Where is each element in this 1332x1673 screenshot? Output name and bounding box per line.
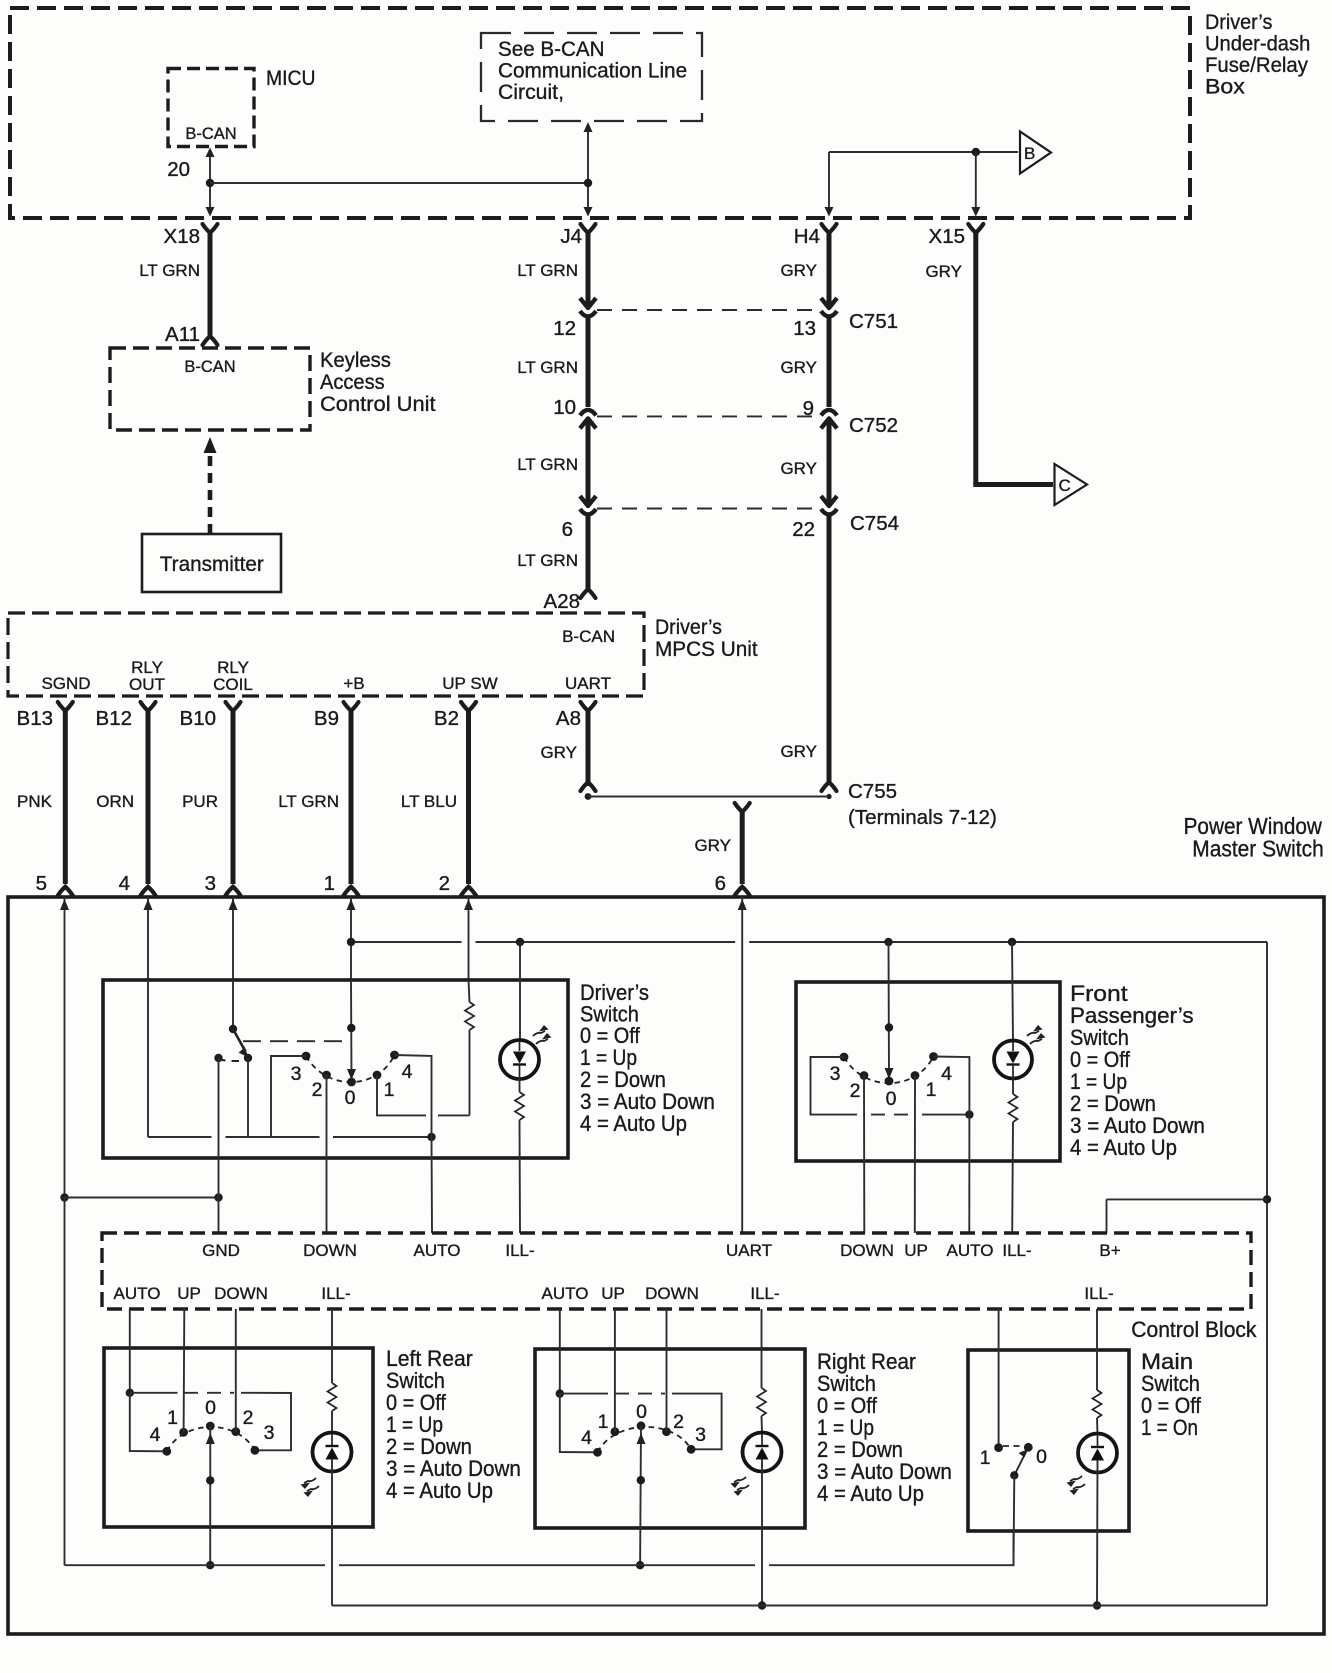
svg-text:3: 3	[264, 1422, 275, 1444]
wire ILL bottom rail	[332, 1605, 1267, 1607]
svg-text:1: 1	[384, 1079, 395, 1101]
svg-text:UART: UART	[726, 1241, 772, 1260]
label 4 LR	[150, 1424, 161, 1446]
svg-text:Keyless: Keyless	[320, 348, 391, 372]
svg-text:Under-dash: Under-dash	[1205, 32, 1310, 56]
contact 2 front	[860, 1071, 869, 1080]
svg-text:Circuit,: Circuit,	[498, 80, 564, 104]
wire C754 dashed line	[597, 508, 818, 510]
wire driver ILL- LED line	[519, 942, 521, 1040]
node relay contact left	[214, 1054, 222, 1062]
connector A28 fork	[581, 589, 596, 598]
pin B10	[180, 707, 216, 730]
svg-text:0 = Off: 0 = Off	[1070, 1048, 1130, 1072]
svg-text:6: 6	[715, 872, 726, 895]
pin 2 label	[439, 872, 450, 895]
wire pin4 entry with arrow	[144, 897, 153, 980]
label +B	[343, 674, 364, 693]
svg-text:GRY: GRY	[780, 742, 817, 761]
pin 22 label	[792, 518, 815, 541]
svg-text:LT BLU: LT BLU	[401, 792, 457, 811]
svg-text:LT GRN: LT GRN	[139, 261, 200, 280]
wire J4 segment 1 (LT GRN)	[586, 231, 591, 305]
svg-text:AUTO: AUTO	[114, 1284, 161, 1303]
wire contact 2 to DOWN	[326, 1075, 328, 1233]
connector pin2 fork	[461, 887, 476, 896]
label 1 RR	[598, 1411, 609, 1433]
label Main Switch legend	[1141, 1349, 1201, 1440]
svg-text:5: 5	[36, 872, 47, 895]
node X15 junction	[972, 148, 980, 156]
contact 1 front	[911, 1071, 920, 1080]
svg-text:1 = Up: 1 = Up	[386, 1413, 443, 1438]
node A8 C755 junction	[585, 793, 592, 800]
svg-text:PNK: PNK	[17, 792, 53, 811]
label 2 RR	[673, 1411, 684, 1433]
Driver's MPCS Unit box	[8, 613, 644, 696]
connector B13 fork	[58, 702, 73, 711]
label AUTO (left rear)	[114, 1284, 161, 1303]
node right rear GND rail	[636, 1561, 644, 1569]
connector C754 at H4 pin 22	[821, 496, 837, 515]
svg-text:PUR: PUR	[182, 792, 218, 811]
svg-text:GRY: GRY	[694, 836, 731, 855]
wire front contact 2 to DOWN	[863, 1076, 865, 1234]
svg-text:2: 2	[243, 1407, 254, 1429]
wire H4 segment 4 (GRY)	[827, 515, 832, 784]
relay armature	[233, 1029, 249, 1058]
label 2 LR	[243, 1407, 254, 1429]
svg-text:Switch: Switch	[580, 1003, 639, 1027]
svg-text:COIL: COIL	[213, 675, 253, 694]
svg-text:0 = Off: 0 = Off	[580, 1024, 640, 1048]
relay link dashed	[243, 1040, 351, 1042]
node main arm pivot	[1010, 1471, 1018, 1479]
node front AUTO junction	[965, 1110, 973, 1118]
connector J4 fork	[581, 224, 596, 233]
svg-text:1 = On: 1 = On	[1141, 1416, 1198, 1441]
wire right rear DOWN entry	[666, 1309, 668, 1432]
LED front illumination	[994, 1041, 1032, 1079]
contact 2 LR	[231, 1427, 240, 1436]
wire B9 (LT GRN)	[349, 710, 354, 884]
wire B12 (ORN)	[146, 710, 151, 884]
pin 3 label	[205, 872, 216, 895]
wire pin3 entry with arrow	[229, 897, 238, 980]
wire H4 branch	[825, 152, 1019, 217]
svg-text:0: 0	[1036, 1446, 1047, 1468]
rotary arc right rear	[598, 1427, 692, 1452]
node left rear common	[206, 1476, 214, 1484]
svg-text:LT GRN: LT GRN	[278, 792, 339, 811]
wire right rear contact 4 bracket	[560, 1394, 598, 1453]
driver's switch box	[103, 980, 568, 1158]
svg-text:4: 4	[119, 872, 130, 895]
wire pin2 entry with arrow	[464, 897, 473, 980]
contact 0 main	[1024, 1443, 1033, 1452]
connector H4 fork	[822, 224, 837, 233]
main contact dashed	[1003, 1445, 1024, 1447]
arrow to front common 0	[885, 1068, 894, 1079]
resistor front LED	[1009, 1077, 1018, 1233]
svg-text:X18: X18	[164, 225, 200, 248]
node left rear GND rail	[206, 1561, 214, 1569]
wire front contact 3 bracket	[811, 1057, 858, 1115]
label DOWN (left rear)	[214, 1284, 268, 1303]
svg-text:Right Rear: Right Rear	[817, 1349, 916, 1374]
label 1 main	[980, 1447, 991, 1469]
contact 4 LR	[162, 1447, 171, 1456]
svg-text:1: 1	[598, 1411, 609, 1433]
wire front AUTO exit	[968, 1115, 970, 1233]
svg-text:4 = Auto Up: 4 = Auto Up	[817, 1482, 924, 1506]
node relay contact right	[244, 1054, 252, 1062]
contact 1	[373, 1071, 382, 1080]
label ILL- (front)	[1002, 1241, 1031, 1260]
label Driver's Switch legend	[580, 981, 715, 1136]
svg-text:A11: A11	[165, 323, 200, 346]
off-page arrow C	[1055, 464, 1088, 505]
rotary arc driver	[306, 1055, 395, 1082]
pin 5 label	[36, 872, 47, 895]
rotary arc left rear	[167, 1427, 255, 1451]
wire main input entry	[998, 1309, 1000, 1448]
label 2 front	[850, 1080, 861, 1102]
node SGND corner	[60, 1193, 68, 1201]
svg-text:ILL-: ILL-	[750, 1284, 779, 1303]
svg-text:3: 3	[291, 1063, 302, 1085]
wire main common down	[1013, 1475, 1016, 1565]
wire left rear DOWN entry	[235, 1309, 237, 1432]
control block box	[102, 1233, 1251, 1309]
resistor left rear LED	[328, 1383, 337, 1433]
label RLY COIL	[213, 658, 253, 694]
label 1 LR	[167, 1407, 178, 1429]
contact 3 LR	[251, 1446, 260, 1455]
connector C754 at J4 pin 6	[580, 496, 596, 515]
connector pin1 fork	[344, 887, 359, 896]
node left rear AUTO junction	[126, 1389, 134, 1397]
LED left rear illumination	[313, 1433, 352, 1606]
label 4 RR	[581, 1427, 592, 1449]
connector B10 fork	[226, 702, 241, 711]
connector C751 at J4 pin 12	[580, 298, 596, 317]
svg-text:1: 1	[980, 1447, 991, 1469]
svg-text:Transmitter: Transmitter	[160, 553, 264, 576]
label Front Passenger's Switch legend	[1070, 981, 1205, 1160]
label C755 (Terminals 7-12)	[848, 780, 997, 829]
label 4 front	[941, 1063, 952, 1085]
wire AUTO exit	[431, 1137, 434, 1233]
transmitter box	[142, 534, 281, 592]
svg-text:0 = Off: 0 = Off	[817, 1394, 877, 1418]
LED rays left rear	[301, 1478, 320, 1497]
label B-CAN (MICU pin)	[185, 125, 236, 143]
resistor right rear LED	[757, 1388, 766, 1433]
connector X15 fork	[968, 224, 983, 233]
LED rays right rear	[731, 1477, 750, 1496]
wire J4 segment 2 (LT GRN)	[586, 317, 591, 407]
pin 1 label	[324, 872, 335, 895]
label Power Window Master Switch	[1184, 813, 1324, 862]
wire UART (GRY)	[740, 811, 745, 884]
label 0 front	[886, 1088, 897, 1110]
wire SGND continues to GND rail	[64, 1198, 66, 1566]
connector C752 at J4 pin 10	[580, 410, 596, 429]
svg-text:MPCS Unit: MPCS Unit	[655, 638, 758, 661]
label 4	[402, 1061, 413, 1083]
node AUTO rail junction	[427, 1133, 435, 1141]
wire left rear ILL- entry	[331, 1309, 333, 1383]
node right rear AUTO junction	[556, 1389, 564, 1397]
svg-text:UP SW: UP SW	[442, 674, 497, 693]
wire pin5 entry with arrow	[60, 897, 69, 1198]
label MICU	[266, 66, 315, 90]
See B-CAN box	[481, 33, 702, 121]
wire front +B	[888, 942, 891, 1077]
node main ILL rail	[1093, 1601, 1101, 1609]
svg-text:A8: A8	[556, 707, 581, 730]
label H4	[794, 225, 820, 248]
svg-text:X15: X15	[929, 225, 965, 248]
svg-text:4: 4	[581, 1427, 592, 1449]
label RLY OUT	[129, 658, 165, 694]
connector pin3 fork	[226, 887, 241, 896]
node B+ branch junction	[1263, 1195, 1271, 1203]
svg-text:(Terminals 7-12): (Terminals 7-12)	[848, 806, 997, 829]
connector pin4 fork	[141, 887, 156, 896]
contact 1 main	[994, 1443, 1003, 1452]
label 0	[345, 1087, 356, 1109]
label DOWN (driver)	[303, 1241, 357, 1260]
pin 4 label	[119, 872, 130, 895]
connector pin5 fork	[58, 887, 73, 896]
pin B2	[434, 707, 459, 730]
svg-text:GND: GND	[202, 1241, 240, 1260]
contact 0 RR	[637, 1421, 646, 1430]
label 2	[312, 1079, 323, 1101]
connector B9 fork	[344, 702, 359, 711]
contact 3 front	[840, 1053, 849, 1062]
connector A8 fork	[581, 702, 596, 711]
label C754	[850, 512, 899, 535]
svg-text:B13: B13	[17, 707, 53, 730]
label Driver's MPCS Unit	[655, 615, 758, 661]
wire MICU stem	[206, 148, 215, 217]
wire pin6 UART entry with arrow	[738, 897, 747, 1233]
svg-text:B10: B10	[180, 707, 216, 730]
svg-text:ILL-: ILL-	[321, 1284, 350, 1303]
resistor main LED	[1093, 1390, 1102, 1434]
svg-text:Switch: Switch	[1141, 1372, 1200, 1396]
svg-text:2: 2	[312, 1079, 323, 1101]
label LT GRN	[139, 261, 200, 280]
label ILL- (left rear)	[321, 1284, 350, 1303]
arrow to common 0	[347, 1069, 356, 1080]
svg-text:C751: C751	[849, 310, 898, 333]
label 3 front	[830, 1063, 841, 1085]
label X18	[164, 225, 200, 248]
svg-text:C754: C754	[850, 512, 899, 535]
left rear switch box	[104, 1348, 373, 1527]
connector UART fork upper	[735, 803, 750, 812]
right rear switch box	[535, 1349, 805, 1528]
wire X18 to A11 (LT GRN)	[208, 231, 213, 339]
label GND	[202, 1241, 240, 1260]
contact 3	[302, 1052, 311, 1061]
svg-text:OUT: OUT	[129, 675, 165, 694]
svg-text:4: 4	[402, 1061, 413, 1083]
label UART	[565, 674, 611, 693]
label Driver's Under-dash Fuse/Relay Box	[1205, 10, 1310, 98]
wire relay right contact to rail	[247, 1058, 249, 1137]
wire right side vertical	[1266, 942, 1268, 1606]
svg-text:B: B	[1024, 144, 1035, 163]
label SGND	[41, 674, 90, 693]
wire J4 stem	[584, 122, 593, 217]
wire A8 (GRY)	[586, 710, 591, 786]
svg-text:DOWN: DOWN	[214, 1284, 268, 1303]
wire transmitter dashed arrow	[204, 437, 217, 534]
pin B9	[314, 707, 339, 730]
svg-text:2: 2	[673, 1411, 684, 1433]
contact 3 RR	[687, 1445, 696, 1454]
contact 1 LR	[179, 1428, 188, 1437]
label ILL- (main)	[1084, 1284, 1113, 1303]
wire B2 (LT BLU)	[466, 710, 471, 884]
connector B2 fork	[461, 702, 476, 711]
svg-text:Left Rear: Left Rear	[386, 1346, 473, 1372]
svg-text:H4: H4	[794, 225, 820, 248]
wire C751 dashed line	[597, 309, 820, 311]
wire C752 dashed line	[597, 415, 818, 417]
svg-text:J4: J4	[560, 225, 582, 248]
node right rear ILL rail	[758, 1601, 766, 1609]
svg-text:1: 1	[167, 1407, 178, 1429]
wire contact 1 bracket	[377, 1075, 426, 1115]
wire RLY OUT inside driver box	[147, 980, 149, 1137]
wire relay left contact to GND	[218, 1058, 220, 1233]
svg-text:GRY: GRY	[780, 358, 817, 377]
svg-text:Control Unit: Control Unit	[320, 391, 436, 416]
connector X18 fork	[203, 224, 218, 233]
svg-text:B2: B2	[434, 707, 459, 730]
svg-text:Main: Main	[1141, 1349, 1193, 1374]
contact 0 LR	[206, 1422, 215, 1431]
wire right rear common 0	[637, 1426, 646, 1565]
svg-text:B+: B+	[1099, 1241, 1120, 1260]
wire contact 3 bracket	[271, 1056, 306, 1137]
svg-text:LT GRN: LT GRN	[517, 455, 578, 474]
svg-text:0: 0	[636, 1401, 647, 1423]
label 3	[291, 1063, 302, 1085]
label B+	[1099, 1241, 1120, 1260]
wire front contact 4 bracket	[934, 1057, 970, 1115]
svg-text:3 = Auto Down: 3 = Auto Down	[386, 1456, 521, 1481]
svg-text:AUTO: AUTO	[542, 1284, 589, 1303]
wire right rear AUTO entry	[559, 1309, 561, 1394]
svg-text:1 = Up: 1 = Up	[817, 1416, 874, 1441]
svg-text:0: 0	[205, 1397, 216, 1419]
wire H4 segment 2 (GRY)	[827, 317, 832, 407]
label 1 front	[926, 1079, 937, 1101]
svg-text:ORN: ORN	[96, 792, 134, 811]
svg-text:1 = Up: 1 = Up	[1070, 1070, 1127, 1095]
wire X15 stem	[971, 152, 980, 217]
node front +B tap	[884, 938, 892, 946]
contact 0 front	[885, 1077, 894, 1086]
LED rays driver	[533, 1025, 552, 1044]
svg-text:LT GRN: LT GRN	[517, 261, 578, 280]
label Control Block	[1131, 1318, 1256, 1343]
label C752	[849, 414, 898, 437]
svg-text:B-CAN: B-CAN	[185, 125, 236, 143]
MICU box	[168, 69, 254, 147]
svg-text:20: 20	[167, 158, 190, 181]
wire pin1 entry with arrow	[347, 897, 356, 980]
svg-text:13: 13	[793, 317, 816, 340]
connector pin6 fork	[735, 887, 750, 896]
svg-text:2: 2	[439, 872, 450, 895]
wire left rear AUTO entry	[129, 1309, 131, 1393]
pin B13	[17, 707, 53, 730]
wire C755 horizontal	[588, 796, 829, 798]
svg-text:3: 3	[830, 1063, 841, 1085]
contact 1 RR	[611, 1427, 620, 1436]
wire RLY COIL to relay pivot	[232, 980, 234, 1029]
svg-text:Control Block: Control Block	[1131, 1318, 1256, 1343]
label Keyless Access Control Unit	[320, 348, 436, 415]
svg-text:A28: A28	[544, 590, 580, 613]
label X15	[929, 225, 965, 248]
node front +B junction	[885, 1023, 893, 1031]
svg-text:0 = Off: 0 = Off	[386, 1391, 446, 1415]
svg-text:GRY: GRY	[780, 459, 817, 478]
node MICU junction	[206, 179, 214, 187]
label Right Rear Switch legend	[817, 1349, 952, 1506]
pin 10 label	[553, 396, 576, 419]
label DOWN (right rear)	[645, 1284, 699, 1303]
wire right rear link	[560, 1394, 722, 1450]
wire right rear UP entry	[614, 1309, 616, 1432]
svg-text:B9: B9	[314, 707, 339, 730]
main switch box	[968, 1350, 1129, 1531]
label ILL- (driver)	[505, 1241, 534, 1260]
label Transmitter	[160, 553, 264, 576]
label AUTO (driver)	[414, 1241, 461, 1260]
label 0 main	[1036, 1446, 1047, 1468]
svg-text:LT GRN: LT GRN	[517, 551, 578, 570]
svg-text:DOWN: DOWN	[840, 1241, 894, 1260]
wire J4 segment 3 (LT GRN)	[586, 421, 591, 503]
wire +B inside driver box	[350, 980, 353, 1078]
wire UP SW resistor line	[465, 980, 474, 1115]
label AUTO (right rear)	[542, 1284, 589, 1303]
connector C752 at H4 pin 9	[821, 410, 837, 429]
wire B13 (PNK)	[63, 710, 68, 884]
contact 4 front	[929, 1052, 938, 1061]
svg-text:4: 4	[150, 1424, 161, 1446]
pin 9 label	[803, 397, 814, 420]
svg-text:GRY: GRY	[925, 262, 962, 281]
wire B+ top rail	[351, 941, 1267, 943]
svg-text:9: 9	[803, 397, 814, 420]
label AUTO (front)	[947, 1241, 994, 1260]
label DOWN (front)	[840, 1241, 894, 1260]
LED rays front	[1027, 1025, 1046, 1044]
svg-text:ILL-: ILL-	[1002, 1241, 1031, 1260]
label B-CAN (keyless pin)	[184, 358, 235, 376]
